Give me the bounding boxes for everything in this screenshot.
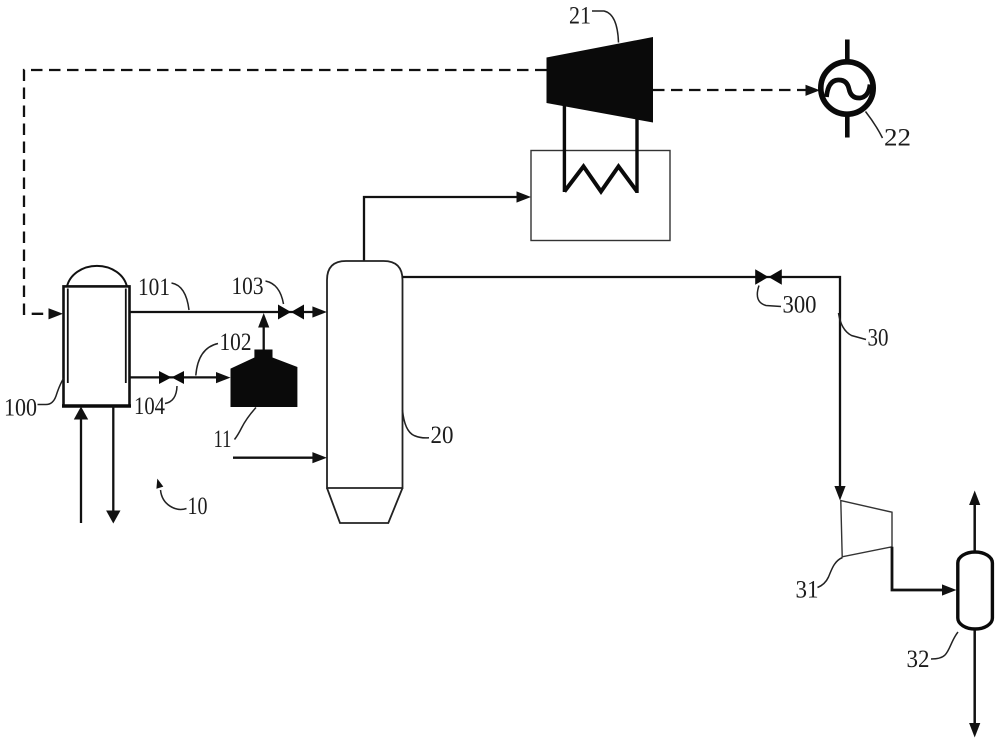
arrowhead into vessel 100	[49, 308, 64, 319]
leader line for label 100	[38, 379, 64, 405]
wire: riser from hopper 11 up to line 101	[263, 323, 265, 350]
leader line for label 22	[866, 112, 883, 139]
svg-text:20: 20	[431, 422, 454, 449]
arrowhead up from vessel 32	[969, 491, 980, 506]
turbine 31	[841, 501, 892, 557]
svg-text:101: 101	[138, 274, 170, 301]
hopper 11 (feeder)	[231, 350, 298, 408]
svg-text:10: 10	[188, 493, 208, 520]
arrowhead into condenser	[517, 191, 532, 202]
vessel 100	[62, 266, 131, 406]
arrowhead into column 20 (feed)	[312, 452, 327, 463]
wire: dashed feedback line from turbine 21 inlet, left and down to vessel 100	[24, 70, 547, 314]
svg-text:103: 103	[232, 273, 264, 300]
wire: line 201 from column 20 to the right and down to turbine 31	[403, 277, 841, 488]
svg-text:102: 102	[220, 329, 252, 356]
column 20 bottom cone	[327, 488, 403, 523]
wire: turbine exhaust line left	[563, 106, 566, 193]
vessel 32	[958, 552, 993, 629]
svg-text:22: 22	[884, 125, 911, 152]
leader line for label 101	[172, 283, 190, 310]
wire: inlet arrow up into vessel 100 bottom	[80, 417, 82, 523]
svg-text:32: 32	[907, 646, 930, 673]
wire: feed arrow into column 20 bottom	[233, 457, 314, 459]
leader arrow for label 10	[161, 490, 187, 509]
condenser box under turbine 21	[531, 151, 670, 241]
generator 22	[821, 40, 873, 138]
arrowhead into hopper 11	[216, 372, 231, 383]
leader line for label 31	[818, 558, 843, 588]
svg-text:21: 21	[569, 3, 591, 30]
wire: outlet line down from vessel 100	[112, 406, 114, 511]
arrowhead up into vessel 100	[74, 407, 88, 420]
leader line for label 11	[235, 408, 257, 440]
arrowhead into vessel 32	[942, 584, 957, 595]
wire: line 101 from vessel 100 to column 20	[130, 311, 315, 313]
heating coil zigzag inside condenser	[564, 166, 637, 191]
leader line for label 21	[592, 11, 619, 43]
leader line for label 30	[839, 313, 867, 340]
valve 103	[278, 305, 304, 320]
wire: outlet arrow up from vessel 32	[973, 503, 976, 551]
valve 300	[755, 269, 782, 285]
leader line for label 20	[403, 410, 430, 438]
svg-text:104: 104	[134, 393, 165, 420]
arrowhead into generator 22	[806, 85, 821, 96]
arrowhead up into line 101	[258, 313, 269, 328]
svg-text:300: 300	[783, 292, 817, 319]
leader line for label 32	[931, 632, 958, 659]
wire: line from turbine 31 to vessel 32	[892, 547, 943, 590]
wire: dashed shaft line from turbine 21 to generator 22	[653, 89, 806, 91]
leader line for label 103	[266, 281, 284, 304]
arrowhead into column 20 (line 101)	[312, 306, 327, 317]
wire: outlet arrow down from vessel 32	[973, 630, 976, 724]
svg-text:31: 31	[796, 577, 819, 604]
valve 104	[159, 371, 184, 384]
wire: line 102 from vessel 100 to hopper 11	[130, 376, 220, 378]
arrowhead into turbine 31	[834, 486, 845, 501]
wire: steam line from column 20 top to condenser	[364, 197, 517, 261]
leader line for label 102	[196, 344, 218, 376]
arrowhead down from vessel 100 outlet	[106, 511, 120, 524]
arrowhead down from vessel 32	[969, 723, 980, 738]
small arrowhead for label 10	[156, 479, 163, 489]
leader line for label 300	[757, 286, 781, 307]
svg-text:100: 100	[4, 395, 37, 422]
svg-text:11: 11	[214, 426, 232, 453]
wire: turbine exhaust line right	[635, 119, 638, 193]
leader line for label 104	[165, 386, 177, 404]
column 20 (gasifier vessel)	[327, 261, 403, 488]
svg-text:30: 30	[868, 325, 889, 352]
turbine 21	[547, 37, 654, 123]
